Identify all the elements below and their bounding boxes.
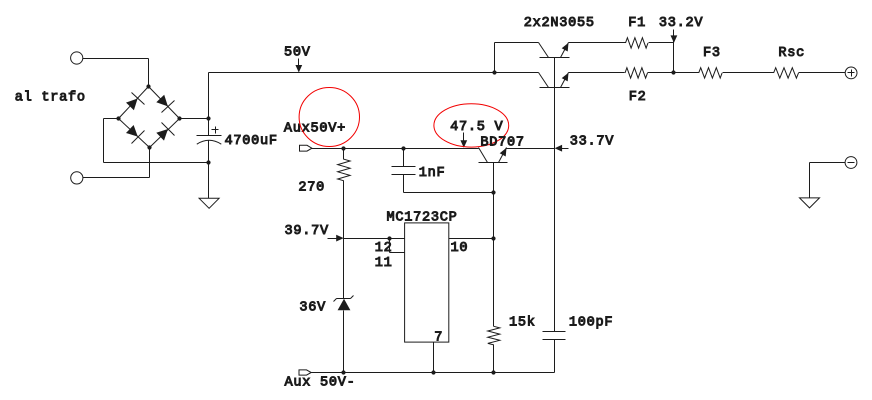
- resistor 270: [338, 159, 350, 181]
- wire Rsc to output terminal: [799, 72, 846, 74]
- svg-text:12: 12: [375, 241, 393, 256]
- label 33.2V: [659, 16, 704, 31]
- wire aux to 1nF: [403, 149, 405, 167]
- svg-text:33.7V: 33.7V: [570, 135, 615, 150]
- label BD707: [480, 136, 524, 151]
- node bridge right: [177, 116, 181, 120]
- transistor Q3 BD707: [479, 148, 508, 163]
- pin label 12: [375, 241, 393, 256]
- wire F3 to Rsc: [723, 72, 774, 74]
- node bridge top: [146, 84, 150, 88]
- svg-text:11: 11: [375, 256, 393, 271]
- capacitor C 4700uF (polarized): [197, 127, 222, 145]
- svg-text:15k: 15k: [509, 315, 536, 330]
- diode bridge top-right (anode top vertex, cathode right): [156, 95, 174, 113]
- label F1: [628, 16, 646, 31]
- wire Q2 emitter to F2: [569, 72, 625, 74]
- label 1nF: [419, 166, 446, 181]
- wire node to pin12: [344, 238, 405, 240]
- svg-text:33.2V: 33.2V: [659, 16, 704, 31]
- transistor Q2 2N3055: [539, 73, 570, 88]
- ground symbol main: [199, 198, 219, 208]
- label 100pF: [569, 315, 613, 330]
- node bottom rail pin7: [431, 370, 435, 374]
- node pins 11 12 tie: [387, 236, 391, 240]
- diode bridge bottom-left (anode left vertex, cathode bottom): [126, 125, 145, 144]
- node cap top: [206, 116, 210, 120]
- capacitor C 100pF: [543, 332, 566, 340]
- wire BD707 base vertical: [493, 163, 495, 327]
- capacitor C 1nF: [392, 167, 416, 175]
- wire 50V rail: [209, 72, 495, 74]
- svg-text:F1: F1: [628, 16, 646, 31]
- node 1nF return: [491, 190, 495, 194]
- pin label 11: [375, 256, 393, 271]
- svg-text:7: 7: [434, 330, 443, 345]
- node F1 F2 junction: [671, 70, 675, 74]
- svg-text:36V: 36V: [299, 301, 326, 316]
- wire +50V node vertical: [208, 73, 210, 136]
- bridge rectifier diamond wires: [119, 87, 180, 148]
- svg-text:4700uF: 4700uF: [225, 134, 278, 149]
- arrow 47.5V pointer: [460, 133, 467, 148]
- svg-text:F2: F2: [629, 90, 647, 105]
- connector tag Aux50V+: [300, 145, 312, 151]
- svg-text:Rsc: Rsc: [778, 46, 805, 61]
- wire F1 to junction: [649, 42, 674, 44]
- diode bridge bottom-right (anode bottom vertex, cathode right): [156, 123, 174, 141]
- svg-text:Aux50V+: Aux50V+: [284, 122, 346, 137]
- label Rsc: [778, 46, 805, 61]
- arrow 50V pointer: [295, 59, 302, 73]
- wire 270 to 39.7V node: [343, 181, 345, 239]
- wire junction to F3: [648, 72, 699, 74]
- label MC1723CP: [387, 211, 458, 226]
- resistor Rsc: [774, 68, 799, 78]
- wire bottom rail Aux 50V-: [312, 372, 494, 374]
- wire bases junction vertical: [554, 58, 556, 332]
- terminal AC input top: [71, 52, 83, 64]
- wire bridge right vertex to +50V node: [180, 118, 209, 120]
- wire bridge left vertex to negative rail: [104, 119, 209, 163]
- label F2: [629, 90, 647, 105]
- label 15k: [509, 315, 536, 330]
- svg-text:F3: F3: [703, 46, 721, 61]
- wire 39.7V node to zener: [343, 239, 345, 299]
- node pin10 base line: [491, 236, 495, 240]
- label al trafo: [15, 91, 86, 106]
- wire BD707 emitter to base junction: [507, 148, 555, 150]
- label 36V: [299, 301, 326, 316]
- svg-text:10: 10: [451, 241, 469, 256]
- label Aux50V+: [284, 122, 346, 137]
- node bridge bottom: [147, 145, 151, 149]
- node cap bottom / negative rail: [206, 160, 210, 164]
- wire pin11 tie: [390, 239, 405, 253]
- node bridge left: [116, 116, 120, 120]
- svg-text:50V: 50V: [284, 46, 311, 61]
- diode bridge top-left (anode left vertex, cathode top): [126, 93, 145, 111]
- ground symbol output: [800, 198, 820, 208]
- wire pin10 to driver base: [449, 238, 494, 240]
- svg-text:270: 270: [298, 181, 325, 196]
- svg-text:39.7V: 39.7V: [285, 224, 330, 239]
- label 47.5 V: [450, 120, 503, 135]
- resistor F1: [626, 38, 649, 48]
- connector tag Aux 50V-: [299, 370, 311, 375]
- arrow 33.2V pointer and F1/F2 tie: [671, 30, 678, 73]
- label F3: [703, 46, 721, 61]
- wire aux to 270: [343, 149, 345, 160]
- wire AC top to bridge: [83, 59, 149, 87]
- svg-text:100pF: 100pF: [569, 315, 613, 330]
- label 4700uF: [225, 134, 278, 149]
- transistor Q1 2N3055: [539, 43, 570, 58]
- wire aux rail: [312, 148, 479, 150]
- svg-text:47.5 V: 47.5 V: [450, 120, 503, 135]
- node bottom rail zener: [341, 370, 345, 374]
- wire AC bottom to bridge: [83, 148, 150, 178]
- resistor F3: [699, 68, 722, 78]
- wire pin7 to bottom rail: [433, 343, 435, 373]
- resistor 15k: [488, 326, 500, 345]
- IC U1 MC1723CP box: [405, 223, 449, 342]
- terminal output positive: [845, 67, 857, 79]
- terminal output negative: [845, 157, 857, 169]
- wire zener to bottom rail: [343, 311, 345, 373]
- node collectors 2N3055: [492, 70, 496, 74]
- label 33.7V: [570, 135, 615, 150]
- svg-text:Aux 50V-: Aux 50V-: [285, 376, 356, 391]
- svg-text:MC1723CP: MC1723CP: [387, 211, 458, 226]
- node aux rail 1nF: [401, 146, 405, 150]
- wire 15k to bottom rail: [493, 345, 495, 373]
- label 50V: [284, 46, 311, 61]
- pin label 7: [434, 330, 443, 345]
- wire 1nF to base line: [404, 175, 494, 193]
- svg-text:1nF: 1nF: [419, 166, 446, 181]
- wire 100pF to bottom rail: [494, 340, 555, 373]
- red ellipse around Aux50V+: [299, 88, 359, 147]
- svg-text:al trafo: al trafo: [15, 91, 86, 106]
- label 39.7V: [285, 224, 330, 239]
- wire Q1 emitter to F1: [569, 42, 626, 44]
- arrow 39.7V pointer: [328, 235, 344, 242]
- label Aux 50V-: [285, 376, 356, 391]
- resistor F2: [625, 68, 648, 78]
- label 2x2N3055: [524, 16, 595, 31]
- wire collector feed Q1: [495, 43, 539, 73]
- arrow 33.7V pointer: [555, 145, 569, 152]
- terminal AC input bottom: [71, 172, 83, 184]
- wire collector feed Q2: [495, 72, 539, 74]
- pin label 10: [451, 241, 469, 256]
- red ellipse around 47.5 V: [434, 104, 509, 147]
- svg-text:2x2N3055: 2x2N3055: [524, 16, 595, 31]
- zener diode 36V: [334, 296, 354, 311]
- wire negative terminal to ground: [810, 163, 846, 198]
- node bottom rail 15k: [491, 370, 495, 374]
- wire cap bottom: [208, 141, 210, 199]
- node aux rail 270: [341, 146, 345, 150]
- label 270: [298, 181, 325, 196]
